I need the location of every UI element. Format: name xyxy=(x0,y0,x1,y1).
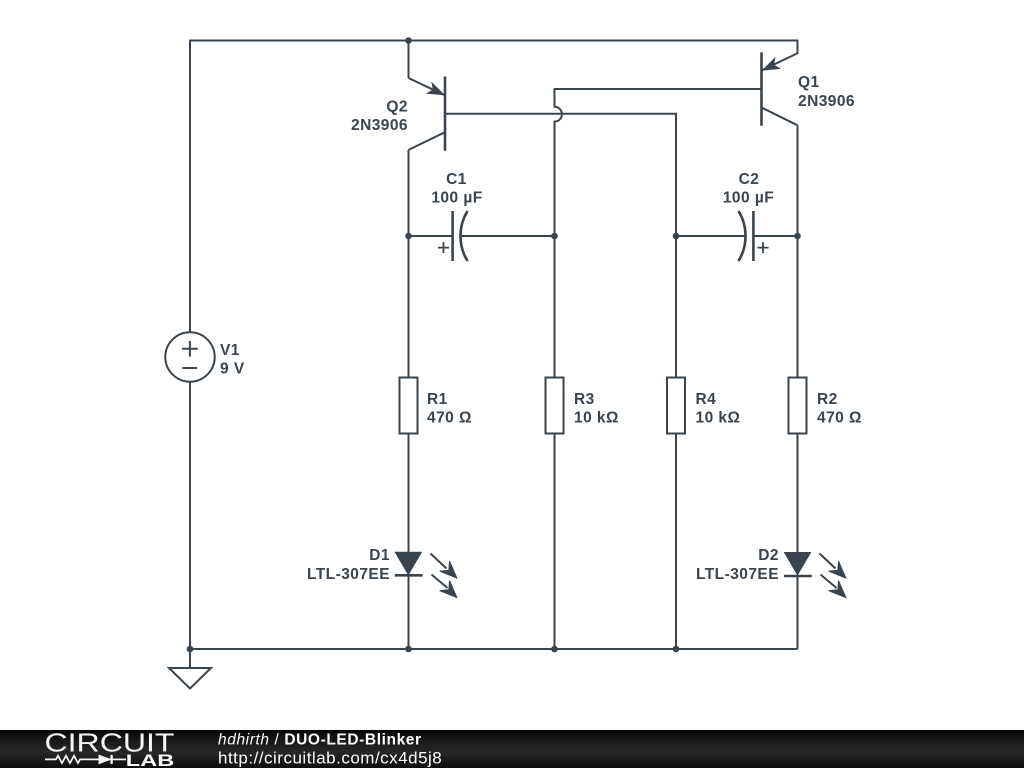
wire Q1 base to node A (with hop) xyxy=(555,89,762,236)
wire node A to R3 xyxy=(554,236,556,378)
footer bar xyxy=(0,730,1024,768)
wire Q2 collector down xyxy=(408,150,410,236)
svg-text:10 kΩ: 10 kΩ xyxy=(696,409,741,426)
svg-text:D1: D1 xyxy=(369,547,390,564)
svg-text:470 Ω: 470 Ω xyxy=(817,409,862,426)
junction dot top node at Q2 emitter xyxy=(405,37,412,44)
junction dot ground node xyxy=(187,646,194,653)
wire Q2 base to node B xyxy=(445,114,676,236)
ground xyxy=(169,668,211,689)
junction dot bottom rail R4 xyxy=(673,646,680,653)
svg-text:C1: C1 xyxy=(446,171,467,188)
svg-text:LTL-307EE: LTL-307EE xyxy=(307,566,390,583)
junction dot bottom rail D1 xyxy=(405,646,412,653)
wire C1 left to R1 xyxy=(408,236,410,378)
resistor R4 xyxy=(667,378,685,434)
svg-text:100 µF: 100 µF xyxy=(723,189,774,206)
svg-text:R4: R4 xyxy=(696,391,717,408)
wire R1 to D1 xyxy=(408,434,410,553)
svg-text:100 µF: 100 µF xyxy=(431,189,482,206)
svg-text:10 kΩ: 10 kΩ xyxy=(574,409,619,426)
transistor Q1 xyxy=(762,52,798,126)
svg-text:R1: R1 xyxy=(427,391,448,408)
wire C2 right to R2 xyxy=(797,236,799,378)
svg-text:Q1: Q1 xyxy=(798,74,820,91)
voltage source V1 xyxy=(165,332,214,381)
svg-text:C2: C2 xyxy=(739,171,760,188)
wire D2 to ground rail xyxy=(797,577,799,649)
wire R2 to D2 xyxy=(797,434,799,553)
resistor R2 xyxy=(789,378,807,434)
wire D1 to ground rail xyxy=(408,576,410,649)
junction dot node B at C2 left xyxy=(673,233,680,240)
svg-text:D2: D2 xyxy=(758,547,779,564)
svg-text:LTL-307EE: LTL-307EE xyxy=(696,566,779,583)
wire bottom rail xyxy=(190,648,798,650)
svg-text:2N3906: 2N3906 xyxy=(798,93,855,110)
capacitor C2 xyxy=(676,211,798,261)
wire top rail xyxy=(190,40,798,42)
wire Q1 collector down xyxy=(797,125,799,236)
svg-text:R3: R3 xyxy=(574,391,595,408)
svg-text:LAB: LAB xyxy=(126,751,175,768)
wire R3 to ground rail xyxy=(554,434,556,650)
svg-text:470 Ω: 470 Ω xyxy=(427,409,472,426)
capacitor C1 xyxy=(409,211,555,261)
junction dot C2 right xyxy=(794,233,801,240)
svg-text:R2: R2 xyxy=(817,391,838,408)
transistor Q2 xyxy=(409,77,446,151)
resistor R1 xyxy=(400,378,418,434)
junction dot C1 left xyxy=(405,233,412,240)
LED D2 xyxy=(784,553,846,598)
svg-text:http://circuitlab.com/cx4d5j8: http://circuitlab.com/cx4d5j8 xyxy=(218,749,442,768)
svg-text:V1: V1 xyxy=(220,342,240,359)
junction dot bottom rail R3 xyxy=(551,646,558,653)
wire Q1 emitter stub xyxy=(762,40,798,71)
wire V1 bottom to ground xyxy=(189,382,191,668)
wire R4 to ground rail xyxy=(675,434,677,650)
wire node B to R4 xyxy=(675,236,677,378)
resistor R3 xyxy=(546,378,564,434)
wire Q2 emitter stub xyxy=(408,41,410,79)
wire left supply column xyxy=(189,40,191,333)
junction dot node A at C1 right xyxy=(551,233,558,240)
svg-text:9 V: 9 V xyxy=(220,360,245,377)
LED D1 xyxy=(395,553,457,598)
svg-text:2N3906: 2N3906 xyxy=(351,117,408,134)
logo resistor-diode squiggle xyxy=(45,755,126,764)
svg-text:Q2: Q2 xyxy=(386,99,408,116)
svg-text:hdhirth / DUO-LED-Blinker: hdhirth / DUO-LED-Blinker xyxy=(218,731,422,748)
